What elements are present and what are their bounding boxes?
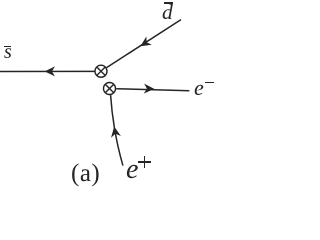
label e-minus [194, 77, 204, 99]
arrow on d-bar line (points toward vertex, down-left) [140, 36, 151, 46]
arrow on positron line (points up toward vertex) [111, 127, 121, 138]
overbar of s-bar [4, 46, 11, 48]
node: upper four-fermion vertex (crossed circle) [95, 65, 107, 77]
wire: d-bar antiquark line [107, 20, 181, 68]
superscript minus of e-minus [205, 82, 214, 84]
superscript plus of e-plus: vertical bar [144, 156, 146, 169]
wire: positron line [111, 95, 123, 166]
label e-plus [126, 156, 138, 184]
arrow on electron line (points right) [144, 84, 155, 94]
label d-bar [162, 2, 173, 24]
superscript plus of e-plus: horizontal bar [138, 161, 151, 163]
wire: s-bar antiquark line [0, 70, 95, 72]
caption (a) [71, 161, 100, 186]
wire: electron line [116, 89, 189, 91]
node: lower vertex (crossed circle) [104, 83, 116, 95]
label s-bar [4, 42, 12, 62]
arrow on s-bar line (points left) [45, 66, 55, 76]
overbar of d-bar [164, 2, 173, 4]
